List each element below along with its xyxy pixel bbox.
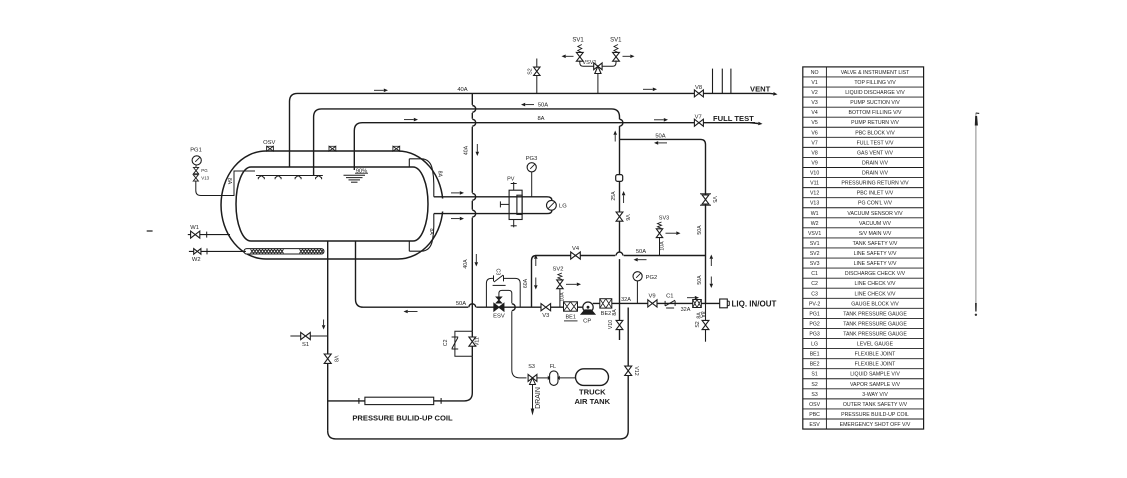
- bottom warming coil in tank: [244, 249, 324, 254]
- spray nozzle 1: [258, 176, 264, 180]
- flow arrow drain leg: [323, 320, 325, 326]
- svg-text:C3: C3: [811, 291, 818, 297]
- spray nozzle 3: [295, 176, 301, 180]
- flow arrow suction: [408, 311, 418, 313]
- svg-text:FLEXIBLE JOINT: FLEXIBLE JOINT: [855, 362, 896, 368]
- bypass check valve C3 over ESV: [486, 278, 520, 307]
- svg-text:V4: V4: [572, 246, 580, 252]
- pressure build-up coil PBC: [365, 397, 434, 404]
- valve V9 discharge drain: [648, 300, 657, 307]
- svg-text:LIQ. IN/OUT: LIQ. IN/OUT: [732, 300, 777, 309]
- pipe pump discharge 32A: [593, 302, 720, 304]
- svg-text:PG1: PG1: [809, 311, 819, 317]
- svg-text:50A: 50A: [538, 102, 548, 108]
- svg-text:8A: 8A: [226, 178, 232, 185]
- pipe 50A vapor return branch: [620, 139, 706, 303]
- flow arrow 25A: [623, 195, 625, 203]
- valve S2 vapor sample: [536, 59, 538, 94]
- svg-text:ESV: ESV: [493, 314, 505, 320]
- full test end arrow: [750, 122, 758, 125]
- pipe liquid in/out stub: [705, 303, 707, 341]
- wire VSV1 drop to vent header: [597, 74, 599, 94]
- hop 25A riser over 8A line: [620, 119, 623, 126]
- svg-text:DISCHARGE CHECK V/V: DISCHARGE CHECK V/V: [845, 271, 906, 277]
- svg-text:VAPOR SAMPLE V/V: VAPOR SAMPLE V/V: [850, 382, 901, 388]
- svg-text:BOTTOM FILLING V/V: BOTTOM FILLING V/V: [849, 110, 902, 116]
- svg-text:ESV: ESV: [809, 422, 820, 428]
- svg-text:V5: V5: [811, 120, 817, 126]
- pipe 25A relief riser: [619, 126, 621, 139]
- valve V12: [625, 366, 632, 375]
- valve V11: [469, 337, 476, 346]
- svg-text:V11: V11: [810, 181, 819, 187]
- svg-text:LIQUID DISCHARGE V/V: LIQUID DISCHARGE V/V: [845, 90, 905, 96]
- svg-text:S1: S1: [811, 372, 817, 378]
- svg-text:V7: V7: [811, 140, 817, 146]
- svg-text:BE1: BE1: [565, 314, 575, 320]
- svg-text:BE2: BE2: [810, 362, 820, 368]
- svg-text:TANK PRESSURE GAUGE: TANK PRESSURE GAUGE: [843, 321, 907, 327]
- shell gap at right nozzles: [435, 199, 449, 212]
- svg-text:C1: C1: [811, 271, 818, 277]
- svg-text:V9: V9: [811, 160, 817, 166]
- svg-text:PG2: PG2: [646, 275, 658, 281]
- svg-text:PRESSURING RETURN V/V: PRESSURING RETURN V/V: [841, 181, 909, 187]
- svg-text:GAUGE BLOCK V/V: GAUGE BLOCK V/V: [851, 301, 899, 307]
- pipe pump suction 50A: [356, 241, 469, 307]
- svg-text:FULL TEST: FULL TEST: [713, 114, 754, 123]
- svg-text:LINE SAFETY V/V: LINE SAFETY V/V: [854, 251, 897, 257]
- svg-text:DRAIN V/V: DRAIN V/V: [862, 171, 888, 177]
- flow arrow riser lower: [475, 254, 477, 262]
- svg-text:TANK PRESSURE GAUGE: TANK PRESSURE GAUGE: [843, 311, 907, 317]
- flow arrow 50A fill: [525, 104, 534, 106]
- svg-text:PBC: PBC: [809, 412, 820, 418]
- svg-text:EMERGENCY SHOT OFF V/V: EMERGENCY SHOT OFF V/V: [840, 422, 911, 428]
- svg-text:SV3: SV3: [659, 215, 669, 221]
- svg-text:PBC INLET V/V: PBC INLET V/V: [857, 191, 894, 197]
- svg-text:TOP FILLING V/V: TOP FILLING V/V: [854, 80, 896, 86]
- air line down to drain: [512, 311, 527, 378]
- hop fill line over 25A riser: [616, 252, 623, 255]
- coil flange left: [358, 398, 360, 404]
- bottom loop pipe: [328, 308, 629, 439]
- svg-text:W1: W1: [190, 225, 199, 231]
- flexible joint BE2: [600, 299, 612, 308]
- svg-text:TANK PRESSURE GAUGE: TANK PRESSURE GAUGE: [843, 331, 907, 337]
- svg-text:SV3: SV3: [810, 261, 820, 267]
- svg-text:S2: S2: [528, 68, 534, 74]
- ESV air pilot line: [499, 290, 512, 303]
- svg-text:FLEXIBLE JOINT: FLEXIBLE JOINT: [855, 352, 896, 358]
- hop air line over suction: [512, 304, 515, 311]
- vent line end arrow: [770, 92, 773, 94]
- svg-text:PV-2: PV-2: [809, 301, 820, 307]
- hop over liquid pipe: [472, 210, 475, 217]
- svg-text:LG: LG: [811, 342, 818, 348]
- internal liquid pipe 8A bottom right: [409, 214, 434, 252]
- svg-text:PG CON'L V/V: PG CON'L V/V: [858, 201, 892, 207]
- spray header: [256, 175, 323, 177]
- svg-text:V8: V8: [333, 356, 339, 362]
- gauge valve: [193, 167, 198, 173]
- svg-text:8A: 8A: [428, 228, 434, 235]
- svg-text:V4: V4: [811, 110, 817, 116]
- svg-text:S2: S2: [811, 382, 817, 388]
- svg-text:V10: V10: [608, 320, 614, 329]
- flow arrow fill: [638, 259, 647, 261]
- cryogenic pump CP: [583, 302, 593, 312]
- svg-text:50A: 50A: [636, 249, 646, 255]
- pipe 40A vent header: [290, 93, 771, 167]
- svg-text:V6: V6: [624, 214, 630, 220]
- svg-text:PUMP RETURN V/V: PUMP RETURN V/V: [851, 120, 899, 126]
- valve V3 pump suction: [541, 304, 551, 311]
- svg-text:SV2: SV2: [553, 267, 564, 273]
- svg-text:LINE SAFETY V/V: LINE SAFETY V/V: [854, 261, 897, 267]
- svg-text:C3: C3: [494, 268, 500, 275]
- svg-text:40A: 40A: [463, 145, 469, 155]
- svg-text:PG3: PG3: [809, 331, 819, 337]
- svg-text:W2: W2: [192, 257, 201, 263]
- svg-text:V5: V5: [711, 196, 717, 202]
- flow arrows on return riser: [710, 259, 712, 266]
- svg-text:S2: S2: [695, 321, 701, 327]
- valve and instrument list table: [803, 67, 924, 429]
- svg-text:TANK SAFETY V/V: TANK SAFETY V/V: [853, 241, 898, 247]
- flow arrow riser upper: [476, 144, 478, 152]
- svg-text:V9: V9: [648, 294, 655, 300]
- flow arrow discharge: [687, 297, 695, 299]
- hop of suction line over riser: [469, 304, 476, 307]
- PG1 tap line: [196, 171, 255, 196]
- hop over vapor pipe: [472, 193, 475, 200]
- pressure gauge PG2: [636, 281, 638, 303]
- pipe bottom fill 50A: [532, 256, 616, 308]
- svg-text:W2: W2: [811, 221, 819, 227]
- svg-text:PUMP SUCTION V/V: PUMP SUCTION V/V: [850, 100, 900, 106]
- svg-text:CP: CP: [583, 319, 591, 325]
- svg-text:PRESSURE BULID-UP COIL: PRESSURE BULID-UP COIL: [352, 413, 453, 422]
- vent stack: [712, 69, 714, 94]
- svg-text:C2: C2: [443, 339, 449, 346]
- flow arrow 8A right: [654, 119, 664, 121]
- manifold to VSV1: [580, 61, 616, 67]
- svg-text:GAS VENT V/V: GAS VENT V/V: [857, 150, 893, 156]
- svg-text:V1: V1: [811, 80, 817, 86]
- svg-text:S3: S3: [528, 364, 535, 370]
- flow arrow branch: [658, 142, 667, 144]
- flow arrow at branch tee: [614, 135, 616, 142]
- truck air tank: [576, 369, 609, 386]
- svg-text:25A: 25A: [611, 191, 617, 201]
- coil supply line: [328, 400, 365, 402]
- svg-text:60A: 60A: [523, 278, 529, 288]
- pipe 8A gauge line: [354, 123, 696, 170]
- svg-text:FULL TEST V/V: FULL TEST V/V: [857, 140, 894, 146]
- svg-text:V13: V13: [810, 201, 819, 207]
- svg-text:V8: V8: [695, 85, 702, 91]
- internal vapor pipe 8A top right: [409, 159, 434, 197]
- svg-text:OSV: OSV: [263, 140, 275, 146]
- svg-text:LINE CHECK V/V: LINE CHECK V/V: [855, 291, 896, 297]
- svg-text:3-WAY V/V: 3-WAY V/V: [862, 392, 888, 398]
- svg-text:C2: C2: [811, 281, 818, 287]
- svg-text:LEVEL GAUGE: LEVEL GAUGE: [857, 342, 894, 348]
- svg-text:V13: V13: [201, 176, 209, 181]
- svg-text:C1: C1: [666, 293, 673, 299]
- hose coupling LIQ IN/OUT: [720, 299, 728, 308]
- svg-text:PG: PG: [201, 168, 208, 173]
- svg-text:BE2: BE2: [601, 311, 611, 317]
- svg-text:SV1: SV1: [610, 38, 622, 44]
- svg-text:50A: 50A: [697, 225, 703, 235]
- svg-text:10A: 10A: [560, 292, 566, 302]
- safety valve SV2: [559, 289, 561, 307]
- svg-text:PBC BLOCK V/V: PBC BLOCK V/V: [855, 130, 895, 136]
- svg-text:VALVE & INSTRUMENT LIST: VALVE & INSTRUMENT LIST: [841, 70, 910, 76]
- level gauge LG: [547, 200, 557, 210]
- svg-text:32A: 32A: [681, 307, 691, 313]
- flexible joint BE3: [693, 300, 702, 308]
- svg-text:32A: 32A: [621, 297, 631, 303]
- svg-text:AIR TANK: AIR TANK: [574, 397, 610, 406]
- spray nozzle 2: [275, 176, 281, 180]
- svg-text:PG1: PG1: [190, 148, 202, 154]
- inner vessel: [236, 167, 428, 241]
- svg-text:10A: 10A: [659, 241, 665, 251]
- valve S1 liquid sample: [290, 335, 327, 337]
- outer tank shell: [221, 151, 443, 259]
- svg-text:40A: 40A: [463, 259, 469, 269]
- flow arrow on 40A line right: [643, 88, 653, 90]
- svg-text:LINE CHECK V/V: LINE CHECK V/V: [855, 281, 896, 287]
- emergency shut-off valve ESV: [494, 303, 504, 311]
- svg-text:V8: V8: [811, 150, 817, 156]
- pipe vapor phase tap: [434, 196, 547, 198]
- svg-text:50A: 50A: [456, 301, 466, 307]
- svg-text:8A: 8A: [537, 116, 544, 122]
- pipe 50A top fill line: [314, 109, 620, 176]
- hop over 8A line: [472, 119, 475, 126]
- svg-text:8A: 8A: [437, 171, 443, 178]
- svg-text:W1: W1: [811, 211, 819, 217]
- svg-text:VACUUM V/V: VACUUM V/V: [859, 221, 891, 227]
- drain stub: [532, 385, 534, 410]
- check valve C2: [452, 336, 459, 338]
- valve V6 PBC block: [616, 212, 623, 221]
- check valve C1: [664, 301, 666, 306]
- flow arrow on 40A line: [374, 89, 384, 91]
- flow arrow 8A left: [404, 119, 414, 121]
- svg-text:V11: V11: [475, 337, 481, 346]
- svg-text:SV1: SV1: [810, 241, 820, 247]
- pipe 40A pressurizing riser: [471, 93, 473, 105]
- svg-text:FL: FL: [550, 364, 556, 370]
- svg-text:V2: V2: [811, 90, 817, 96]
- spray nozzle 4: [316, 176, 322, 180]
- svg-text:SV1: SV1: [572, 38, 584, 44]
- svg-text:50A: 50A: [697, 275, 703, 285]
- flow arrow liquid tap: [451, 218, 460, 220]
- safety valve SV3: [659, 238, 661, 256]
- svg-text:PV: PV: [507, 177, 515, 183]
- svg-text:NO: NO: [811, 70, 819, 76]
- full test line: [703, 122, 755, 124]
- svg-text:LG: LG: [559, 204, 567, 210]
- coil flange right: [440, 398, 442, 404]
- leader line mark right of table: [975, 113, 977, 308]
- bypass with check valve C2 and valve V11: [455, 331, 472, 356]
- svg-text:V6: V6: [811, 130, 817, 136]
- check valve C3: [493, 275, 495, 281]
- svg-text:VENT: VENT: [750, 84, 771, 93]
- pipe liquid phase tap: [434, 213, 547, 215]
- svg-text:BE1: BE1: [810, 352, 820, 358]
- flexible joint BE1: [564, 302, 578, 311]
- pipe drain leg from tank bottom: [327, 241, 329, 431]
- svg-text:VSV1: VSV1: [808, 231, 821, 237]
- svg-text:V3: V3: [811, 100, 817, 106]
- svg-text:8A: 8A: [696, 312, 702, 319]
- svg-text:OUTER TANK SAFETY V/V: OUTER TANK SAFETY V/V: [843, 402, 908, 408]
- flow arrows 60A: [535, 259, 537, 266]
- svg-text:OSV: OSV: [809, 402, 820, 408]
- svg-text:V12: V12: [633, 366, 639, 375]
- svg-text:DRAIN V/V: DRAIN V/V: [862, 160, 888, 166]
- svg-text:PG3: PG3: [526, 156, 538, 162]
- svg-text:PRESSURE BUILD-UP COIL: PRESSURE BUILD-UP COIL: [841, 412, 909, 418]
- stray tick mark: [147, 230, 153, 232]
- svg-text:S/V MAIN V/V: S/V MAIN V/V: [859, 231, 892, 237]
- svg-text:S1: S1: [302, 342, 309, 348]
- svg-text:LIQUID SAMPLE V/V: LIQUID SAMPLE V/V: [850, 372, 900, 378]
- flow arrow vapor tap: [451, 192, 460, 194]
- valve S2 bottom sample: [702, 320, 709, 329]
- valve V8 drain leg: [324, 354, 331, 363]
- wire riser to coil: [441, 356, 472, 401]
- svg-text:VACUUM SENSOR V/V: VACUUM SENSOR V/V: [847, 211, 903, 217]
- valve V4 bottom filling: [571, 252, 581, 259]
- svg-text:50A: 50A: [655, 134, 665, 140]
- svg-text:TRUCK: TRUCK: [579, 388, 606, 397]
- svg-text:S3: S3: [811, 392, 817, 398]
- valve V5 pump return: [700, 193, 711, 195]
- hop over 50A line: [472, 106, 475, 113]
- svg-text:40A: 40A: [457, 87, 467, 93]
- svg-text:SV2: SV2: [810, 251, 820, 257]
- svg-text:DRAIN: DRAIN: [535, 387, 542, 409]
- flow device on riser: [616, 175, 623, 182]
- svg-text:PG2: PG2: [809, 321, 819, 327]
- valve V10 drain: [616, 320, 623, 329]
- svg-text:8A: 8A: [612, 309, 618, 316]
- svg-text:V3: V3: [542, 313, 549, 319]
- valve V13 PG control: [193, 175, 198, 181]
- svg-text:V10: V10: [810, 171, 819, 177]
- svg-text:V12: V12: [810, 191, 819, 197]
